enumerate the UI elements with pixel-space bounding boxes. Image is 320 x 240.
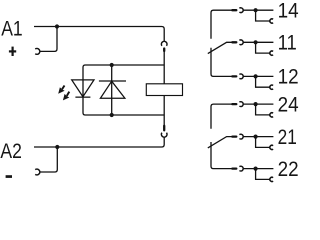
socket coil top xyxy=(161,41,167,45)
socket contact 12 xyxy=(239,74,243,79)
socket contact 24 xyxy=(239,102,243,107)
wire + terminal to A1 xyxy=(40,27,57,52)
svg-text:A1: A1 xyxy=(1,16,23,40)
polarity + xyxy=(9,47,16,56)
contact row 11 xyxy=(232,40,273,55)
svg-text:24: 24 xyxy=(278,93,299,116)
svg-text:A2: A2 xyxy=(0,139,22,163)
node 14 xyxy=(254,8,258,12)
pin contact 21 xyxy=(232,135,236,137)
socket - xyxy=(35,169,40,175)
pin contact 14 xyxy=(232,9,236,11)
wire branch to terminal 22 xyxy=(256,169,271,180)
wire coil feed bottom xyxy=(163,96,165,127)
polarity + horizontal bar xyxy=(9,50,16,52)
node diode top xyxy=(110,63,114,67)
socket terminal 14 xyxy=(270,19,273,23)
socket terminal 11 xyxy=(270,51,273,55)
pin coil bottom xyxy=(163,126,165,131)
pin contact 24 xyxy=(232,103,236,105)
diode V2 cathode bar xyxy=(99,80,126,82)
diode V2 triangle xyxy=(100,81,125,98)
wire coil feed top xyxy=(163,51,165,84)
svg-text:14: 14 xyxy=(278,0,299,22)
wire branch to terminal 24 xyxy=(256,104,271,115)
LED V1 cathode bar xyxy=(75,96,90,98)
wire contact 22 to node xyxy=(243,168,273,170)
LED V1 xyxy=(72,80,94,97)
svg-text:11: 11 xyxy=(278,32,297,55)
socket terminal 12 xyxy=(270,85,273,89)
wire branch to terminal 12 xyxy=(256,76,271,87)
wire - terminal to A2 xyxy=(40,147,58,172)
wire contact 11 to node xyxy=(243,41,273,43)
node 24 xyxy=(254,102,258,106)
polarity + vertical bar xyxy=(12,47,14,56)
node 12 xyxy=(254,74,258,78)
svg-text:21: 21 xyxy=(278,126,297,149)
contact group 1 : fixed NO bus 14 xyxy=(211,10,232,39)
LED emission arrow 2 head xyxy=(63,94,69,101)
contact arm 21 xyxy=(208,137,232,148)
wire branch to terminal 11 xyxy=(256,42,271,53)
node A2 junction xyxy=(55,145,59,149)
fixed NC bus 12 xyxy=(211,48,232,77)
node diode bottom xyxy=(110,113,114,117)
contact row 24 xyxy=(232,102,273,117)
wire A2 to coil bottom xyxy=(34,137,164,147)
socket contact 14 xyxy=(239,8,243,13)
contact arm 11 xyxy=(208,42,232,53)
contact row 21 xyxy=(232,134,273,149)
socket terminal 22 xyxy=(270,177,273,181)
socket coil bottom xyxy=(161,133,167,137)
contact group 2 : fixed NO bus 24 xyxy=(211,104,232,129)
wire contact 14 to node xyxy=(243,9,273,11)
contact row 12 xyxy=(232,74,273,89)
LED emission arrow 1 head xyxy=(58,87,64,94)
socket contact 11 xyxy=(239,40,243,45)
LED V1 triangle xyxy=(72,80,94,97)
coil K1 xyxy=(146,84,182,96)
wire branch to terminal 14 xyxy=(256,10,271,21)
node A1 junction xyxy=(55,24,59,28)
socket contact 21 xyxy=(239,134,243,139)
pin contact 12 xyxy=(232,75,236,77)
svg-text:12: 12 xyxy=(278,66,299,89)
pin contact 11 xyxy=(232,41,236,43)
socket terminal 21 xyxy=(270,145,273,149)
diode V2 xyxy=(99,81,126,98)
contact row 14 xyxy=(232,8,273,23)
wire branch to terminal 21 xyxy=(256,137,271,148)
node 11 xyxy=(254,40,258,44)
pin coil top xyxy=(163,49,165,52)
wire A1 to coil top xyxy=(34,27,164,42)
wire contact 24 to node xyxy=(243,103,273,105)
LED emission arrow 2 tail xyxy=(67,92,70,96)
node 22 xyxy=(254,167,258,171)
node 21 xyxy=(254,135,258,139)
svg-text:22: 22 xyxy=(278,158,299,181)
LED light arrows xyxy=(58,86,69,101)
socket contact 22 xyxy=(239,166,243,171)
socket + xyxy=(35,49,40,55)
wire contact 12 to node xyxy=(243,75,273,77)
wire diode branch xyxy=(111,65,113,115)
fixed NC bus 22 xyxy=(211,142,232,169)
contact row 22 xyxy=(232,166,273,181)
wire contact 21 to node xyxy=(243,136,273,138)
pin contact 22 xyxy=(232,167,236,169)
socket terminal 24 xyxy=(270,113,273,117)
LED emission arrow 1 tail xyxy=(62,86,65,90)
wire LED branch rails xyxy=(83,65,164,115)
polarity - xyxy=(6,175,12,178)
